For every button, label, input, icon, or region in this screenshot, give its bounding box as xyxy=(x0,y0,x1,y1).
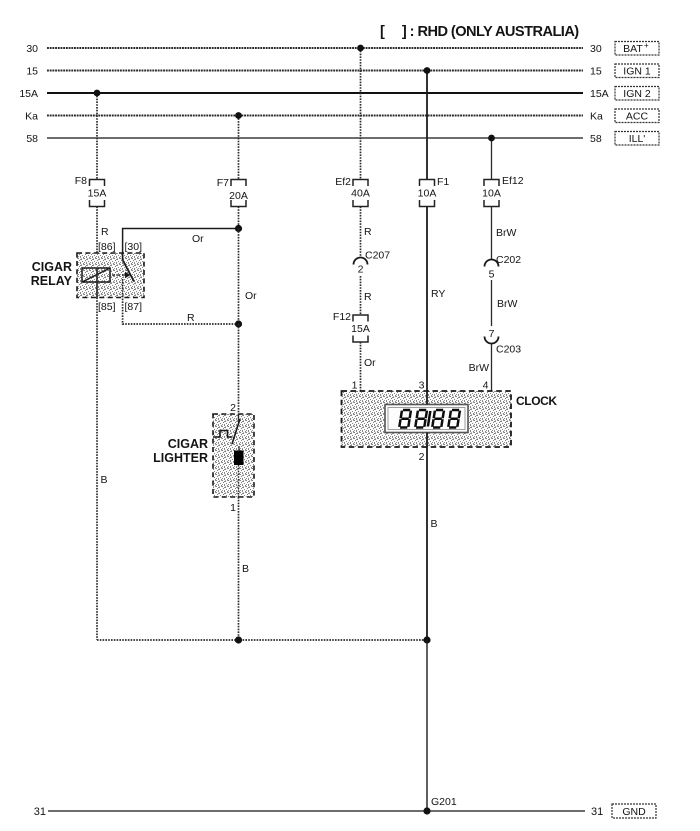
svg-text:CIGAR: CIGAR xyxy=(32,260,72,274)
svg-text:+: + xyxy=(644,41,649,50)
connector C207 xyxy=(354,258,368,265)
svg-text:15A: 15A xyxy=(351,323,370,335)
wire col C inside clock to display xyxy=(360,391,362,392)
svg-text:BrW: BrW xyxy=(497,298,518,310)
svg-text:30: 30 xyxy=(26,43,38,55)
svg-text:20A: 20A xyxy=(229,190,248,202)
fuse Ef2 xyxy=(353,180,368,207)
svg-text:R: R xyxy=(101,226,109,238)
svg-text:ILL': ILL' xyxy=(629,133,646,145)
svg-text:10A: 10A xyxy=(482,188,501,200)
node col D on bus 15 xyxy=(424,67,431,74)
wire col E from bus 58 to fuse Ef12 xyxy=(491,138,493,180)
fuse F1 xyxy=(420,180,435,207)
svg-text:4: 4 xyxy=(483,380,489,392)
relay actuation arrow xyxy=(112,272,131,278)
svg-text:[86]: [86] xyxy=(98,241,116,253)
wire Ef12 to connector C202 xyxy=(491,207,493,260)
node col B on bus Ka xyxy=(235,112,242,119)
wire element to pin 1 xyxy=(238,465,240,497)
svg-text:58: 58 xyxy=(26,133,38,145)
svg-text:2: 2 xyxy=(419,451,425,463)
wire col D collector to ground bus xyxy=(426,640,428,811)
wire pin 30 up and right to F7 column xyxy=(123,229,239,254)
svg-text:1: 1 xyxy=(230,502,236,514)
label CIGAR LIGHTER xyxy=(153,437,208,465)
wire F12 to clock pin 1 xyxy=(360,342,362,391)
box BAT+ xyxy=(615,41,659,55)
fuse Ef12 xyxy=(484,180,499,207)
svg-text:31: 31 xyxy=(34,806,46,818)
svg-text:ACC: ACC xyxy=(626,111,649,123)
connector C203 xyxy=(485,337,499,344)
svg-text:40A: 40A xyxy=(351,188,370,200)
svg-text:R: R xyxy=(364,291,372,303)
relay U1 CIGAR RELAY box xyxy=(77,253,144,298)
svg-text:RY: RY xyxy=(431,288,445,300)
box GND xyxy=(612,804,656,818)
node col A on bus 15A xyxy=(94,90,101,97)
svg-text:[ ] : RHD (ONLY AUSTRALIA): [ ] : RHD (ONLY AUSTRALIA) xyxy=(380,24,579,40)
svg-text:C203: C203 xyxy=(496,344,521,356)
box ILL' xyxy=(615,132,659,146)
wire col A from bus 15A to fuse F8 xyxy=(96,93,98,180)
svg-text:58: 58 xyxy=(590,133,602,145)
svg-text:C207: C207 xyxy=(365,250,390,262)
wire col B lighter pin 1 to bottom xyxy=(238,497,240,640)
svg-text:Ka: Ka xyxy=(590,111,603,123)
svg-text:B: B xyxy=(101,474,108,486)
wire F7 to junction xyxy=(238,207,240,229)
svg-text:RELAY: RELAY xyxy=(31,274,73,288)
svg-text:R: R xyxy=(364,226,372,238)
svg-text:C202: C202 xyxy=(496,254,521,266)
clock display digits 88:88 xyxy=(399,410,460,428)
wire col B junction to cigar lighter pin 2 xyxy=(238,324,240,414)
svg-text:30: 30 xyxy=(590,43,602,55)
wire C207 to F12 xyxy=(360,276,362,315)
wire F8 to relay pin 86 xyxy=(96,207,98,269)
bus 58 xyxy=(47,137,583,139)
cigar lighter box xyxy=(213,414,254,497)
svg-text:F8: F8 xyxy=(75,175,87,187)
svg-text:3: 3 xyxy=(419,380,425,392)
node junction Or at F7 column xyxy=(235,225,242,232)
svg-text:[85]: [85] xyxy=(98,301,116,313)
box IGN 1 xyxy=(615,64,659,78)
node col D on collector xyxy=(423,636,430,643)
bus 31 ground xyxy=(48,810,585,812)
wire col B between junctions xyxy=(238,229,240,325)
wire pin 86 through coil to pin 85 xyxy=(96,268,98,298)
wire F1 to clock pin 3 xyxy=(426,207,428,392)
svg-text:F12: F12 xyxy=(333,311,351,323)
relay switch blade pin 30 to 87 xyxy=(123,253,134,282)
fuse F12 xyxy=(353,315,368,342)
svg-text:5: 5 xyxy=(489,269,495,281)
svg-text:B: B xyxy=(431,518,438,530)
wire col D display to clock pin 2 xyxy=(426,433,428,448)
relay coil xyxy=(82,268,110,282)
svg-text:Ef2: Ef2 xyxy=(335,176,351,188)
clock U2 box xyxy=(342,391,512,447)
svg-text:IGN 2: IGN 2 xyxy=(623,88,651,100)
label CIGAR RELAY xyxy=(31,260,73,288)
svg-text:R: R xyxy=(187,312,195,324)
svg-text:G201: G201 xyxy=(431,796,457,808)
svg-text:2: 2 xyxy=(358,264,364,276)
bus 15A xyxy=(47,92,583,94)
svg-text:15A: 15A xyxy=(590,88,609,100)
svg-text:F1: F1 xyxy=(437,176,449,188)
svg-text:BAT: BAT xyxy=(623,43,643,55)
svg-text:Or: Or xyxy=(364,357,376,369)
bus 30 xyxy=(47,47,583,49)
node col E on bus 58 xyxy=(488,135,495,142)
svg-text:15: 15 xyxy=(590,66,602,78)
cigar lighter heating element xyxy=(234,446,244,465)
svg-text:Or: Or xyxy=(192,233,204,245)
bus Ka xyxy=(47,115,583,117)
wire col D from bus 15 to fuse F1 xyxy=(426,71,428,180)
svg-text:15A: 15A xyxy=(88,188,107,200)
fuse F8 xyxy=(90,180,105,207)
svg-text:7: 7 xyxy=(489,328,495,340)
node col C on bus 30 xyxy=(357,45,364,52)
wire pin 2 into lighter xyxy=(238,414,240,422)
svg-text:2: 2 xyxy=(230,402,236,414)
svg-text:Ef12: Ef12 xyxy=(502,175,524,187)
svg-text:31: 31 xyxy=(591,806,603,818)
node col B on collector xyxy=(235,636,242,643)
wire pin 87 down and right to F7 column xyxy=(123,279,239,324)
node junction R at F7 column xyxy=(235,320,242,327)
svg-text:CIGAR: CIGAR xyxy=(168,437,208,451)
svg-text:15: 15 xyxy=(26,66,38,78)
svg-text:10A: 10A xyxy=(418,188,437,200)
wire col C from bus 30 to fuse Ef2 xyxy=(360,48,362,180)
svg-text:[30]: [30] xyxy=(125,241,143,253)
wire col B from bus Ka to fuse F7 xyxy=(238,116,240,180)
svg-text:GND: GND xyxy=(622,806,646,818)
svg-text:BrW: BrW xyxy=(469,362,490,374)
box IGN 2 xyxy=(615,87,659,101)
svg-text:B: B xyxy=(242,563,249,575)
clock display bezel xyxy=(385,405,468,433)
wire bottom collector xyxy=(97,639,427,641)
svg-text:Or: Or xyxy=(245,290,257,302)
bus 15 xyxy=(47,69,583,71)
fuse F7 xyxy=(231,180,246,207)
wire col D clock pin3 stub to display xyxy=(426,391,428,405)
wire Ef2 to connector C207 xyxy=(360,207,362,258)
svg-text:LIGHTER: LIGHTER xyxy=(153,451,208,465)
wire C203 to clock pin 4 xyxy=(491,344,493,392)
svg-text:15A: 15A xyxy=(19,88,38,100)
cigar lighter thermal contact xyxy=(213,419,240,444)
svg-text:CLOCK: CLOCK xyxy=(516,394,557,408)
node G201 on ground bus xyxy=(423,807,430,814)
svg-text:[87]: [87] xyxy=(125,301,143,313)
svg-text:BrW: BrW xyxy=(496,227,517,239)
box ACC xyxy=(615,109,659,123)
svg-text:F7: F7 xyxy=(217,177,229,189)
svg-text:Ka: Ka xyxy=(25,111,38,123)
svg-text:1: 1 xyxy=(352,380,358,392)
wire C202 to C203 xyxy=(491,280,493,326)
wire clock pin 2 down col D xyxy=(426,447,428,640)
svg-text:IGN 1: IGN 1 xyxy=(623,66,651,78)
wire relay pin 85 down col A xyxy=(96,298,98,641)
connector C202 xyxy=(485,260,499,267)
